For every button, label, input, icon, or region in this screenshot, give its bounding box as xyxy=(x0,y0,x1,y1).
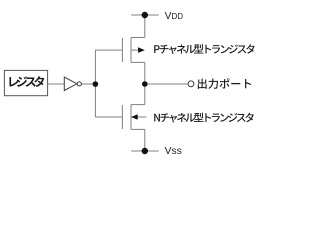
svg-text:Vss: Vss xyxy=(165,146,182,157)
svg-text:VDD: VDD xyxy=(165,11,184,22)
